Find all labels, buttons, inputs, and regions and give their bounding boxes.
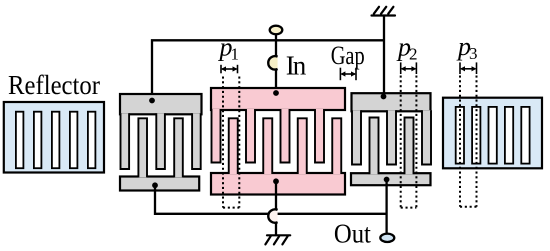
- bottom bus bar: [351, 173, 431, 185]
- svg-text:1: 1: [231, 45, 240, 64]
- wire hop on ground lead: [268, 209, 277, 222]
- node: junction dot on pink bottom bus: [273, 178, 279, 184]
- IDT left (gray transducer): [120, 94, 202, 191]
- top bus bar: [211, 88, 345, 110]
- IDT center (pink transducer): [211, 88, 345, 195]
- svg-text:2: 2: [409, 45, 418, 64]
- node: junction dot on pink top bus: [273, 90, 279, 96]
- node: junction dot on right IDT bottom bus: [384, 177, 390, 183]
- wire: pink bottom bus to ground (upper segment): [275, 182, 277, 210]
- fingers from top bus: [121, 113, 130, 169]
- dimension p2 (pitch of right IDT): [396, 33, 418, 208]
- ground (top right chassis ground): [372, 7, 396, 16]
- fingers from top bus: [352, 110, 361, 164]
- reflector right (shorted grating): [443, 98, 542, 169]
- top bus bar: [352, 93, 431, 111]
- fingers from top bus: [212, 109, 221, 163]
- In port terminal: [270, 26, 283, 35]
- svg-text:3: 3: [469, 44, 478, 63]
- reflector left (shorted grating): [4, 102, 104, 173]
- wire: pink bottom bus to ground (lower segment): [275, 221, 277, 235]
- fingers from bottom bus: [138, 118, 147, 177]
- wire: In port lead (upper segment): [275, 34, 277, 58]
- dimension p3 (pitch of right reflector): [456, 32, 478, 207]
- fingers from bottom bus: [370, 118, 379, 175]
- node: junction dot on right IDT top bus: [381, 94, 387, 100]
- svg-text:Out: Out: [334, 219, 371, 249]
- IDT right (gray transducer): [351, 93, 431, 185]
- fingers from bottom bus: [229, 118, 238, 174]
- svg-text:Gap: Gap: [331, 41, 365, 70]
- dimension p1 (pitch of center IDT): [218, 33, 240, 208]
- svg-text:In: In: [286, 50, 307, 80]
- svg-text:Reflector: Reflector: [8, 70, 100, 100]
- dimension Gap (spacing between center IDT and right IDT): [331, 41, 365, 80]
- wire: top bus interconnect (left IDT top to right IDT top): [152, 40, 384, 100]
- wire: right IDT bottom bus to Out terminal: [385, 180, 387, 234]
- bottom bus bar: [120, 177, 199, 191]
- wire: bottom bus interconnect (left IDT bottom to Out lead): [155, 186, 387, 214]
- node: junction dot on left IDT bottom bus: [152, 182, 158, 188]
- ground (bottom chassis ground): [265, 235, 290, 244]
- Out port terminal: [380, 234, 394, 242]
- wire: ground stem to right IDT top bus: [383, 16, 385, 97]
- top bus bar: [120, 94, 202, 114]
- wire: In port lead (lower segment to pink bus): [275, 69, 277, 93]
- bottom bus bar: [211, 173, 345, 195]
- wire hop on In lead: [268, 56, 277, 69]
- node: junction dot on left IDT top bus: [149, 98, 155, 104]
